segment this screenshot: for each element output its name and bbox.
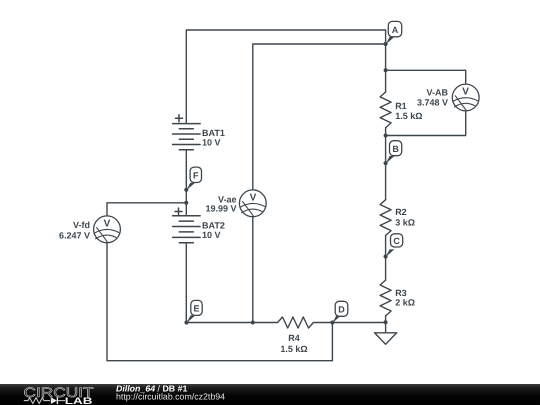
wire: V-ae bottom down to bottom rail — [252, 217, 254, 323]
wire: F junction across to V-fd top — [107, 203, 186, 216]
svg-text:R1: R1 — [395, 101, 407, 111]
node A — [384, 21, 402, 46]
junction dot at F / V-fd branch — [184, 201, 188, 205]
resistor R4 — [278, 317, 314, 328]
label V-ae value — [205, 194, 236, 213]
wire: V-AB branch bottom — [386, 111, 466, 136]
wire: R4 right to node D and ground junction — [313, 322, 385, 324]
svg-text:1.5 kΩ: 1.5 kΩ — [395, 111, 422, 121]
label BAT1 value — [202, 128, 225, 148]
svg-text:R4: R4 — [288, 333, 300, 343]
voltmeter V-AB — [452, 84, 479, 111]
wire: BAT1 bottom to node F and BAT2 top — [185, 150, 187, 216]
voltmeter V-fd — [94, 216, 121, 243]
voltmeter V-ae — [239, 190, 266, 217]
svg-text:V: V — [250, 192, 257, 203]
svg-text:F: F — [193, 171, 199, 181]
node F — [184, 167, 201, 192]
resistor R3 — [380, 280, 391, 316]
wire: node A down to R1 junction — [385, 44, 387, 92]
junction dot at V-AB bottom branch — [384, 134, 388, 138]
svg-text:V-AB: V-AB — [426, 87, 448, 97]
svg-text:A: A — [392, 25, 399, 35]
svg-text:19.99 V: 19.99 V — [205, 203, 236, 213]
svg-text:10 V: 10 V — [202, 230, 221, 240]
svg-text:R2: R2 — [395, 207, 407, 217]
svg-text:E: E — [193, 304, 199, 314]
svg-text:6.247 V: 6.247 V — [59, 231, 90, 241]
svg-text:C: C — [393, 236, 400, 246]
wire: R1 bottom to node B — [385, 128, 387, 163]
wire: R2 bottom to node C — [385, 236, 387, 257]
ground — [375, 322, 397, 344]
node D — [330, 301, 348, 324]
wire: V-AB branch top — [386, 70, 466, 84]
label R4 value — [280, 333, 307, 354]
resistor R2 — [380, 200, 391, 236]
wire: node C to R3 top — [385, 257, 387, 281]
svg-text:LAB: LAB — [65, 395, 93, 404]
wire: BAT1 top terminal up and across to node A — [186, 30, 385, 124]
node B — [384, 141, 402, 166]
label R3 value — [395, 288, 415, 307]
label V-fd value — [59, 220, 90, 240]
svg-text:10 V: 10 V — [202, 138, 221, 148]
node C — [384, 234, 403, 259]
wire: BAT2 bottom to node E — [185, 243, 187, 323]
resistor R1 — [380, 92, 391, 128]
junction dot at V-ae bottom — [251, 321, 255, 325]
svg-text:1.5 kΩ: 1.5 kΩ — [280, 344, 307, 354]
label BAT2 value — [202, 221, 225, 240]
junction dot at A/V-AB branch — [384, 68, 388, 72]
label R2 value — [395, 207, 415, 227]
svg-text:BAT1: BAT1 — [202, 128, 225, 138]
label R1 value — [395, 101, 422, 121]
battery BAT2 — [173, 208, 201, 243]
wire: V-ae top up and across to node A — [253, 44, 386, 190]
svg-text:V: V — [104, 218, 111, 229]
CircuitLab logo wordmark — [24, 385, 94, 405]
node E — [184, 300, 202, 324]
svg-text:V: V — [462, 87, 469, 98]
battery BAT1 — [173, 115, 201, 150]
svg-text:V-fd: V-fd — [73, 220, 90, 230]
wire: node E to R4 left — [187, 322, 278, 324]
svg-text:3.748 V: 3.748 V — [417, 97, 448, 107]
wire: R3 bottom to ground junction — [385, 316, 387, 322]
svg-text:D: D — [338, 305, 345, 315]
wire: node B to R2 top — [385, 163, 387, 200]
label V-AB value — [417, 87, 449, 107]
svg-text:2 kΩ: 2 kΩ — [395, 297, 415, 307]
svg-text:http://circuitlab.com/cz2tb94: http://circuitlab.com/cz2tb94 — [116, 391, 225, 401]
wire: V-fd bottom down, across, up to node D — [107, 243, 332, 361]
junction dot at ground — [384, 320, 388, 324]
svg-text:3 kΩ: 3 kΩ — [395, 217, 415, 227]
svg-text:B: B — [392, 144, 399, 154]
